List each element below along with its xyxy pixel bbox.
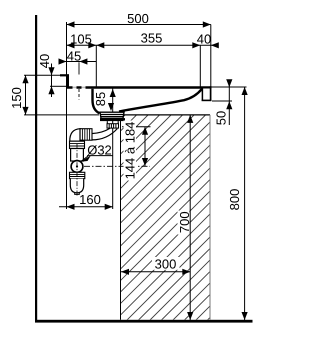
svg-text:40: 40 <box>37 54 52 68</box>
hatch left edge <box>120 115 122 320</box>
hatch top edge <box>121 114 211 116</box>
extension line y75 (tap ledge level, to 150 dim) <box>24 74 62 76</box>
extension line y87 right <box>212 86 247 88</box>
svg-text:144 à 184: 144 à 184 <box>123 122 138 180</box>
dim 105 / 355 / 40 line <box>67 31 219 49</box>
svg-text:40: 40 <box>197 32 211 47</box>
drain flange stripes <box>100 112 124 118</box>
trap inlet nut <box>70 141 85 148</box>
basin inner-left wall + bottom to drain <box>93 89 100 114</box>
dim 150 (vertical) <box>9 75 29 115</box>
dim 300 <box>121 257 190 275</box>
ground line <box>35 320 253 323</box>
svg-text:355: 355 <box>141 31 163 46</box>
pipe to elbow <box>92 128 118 140</box>
hatch wall section <box>100 20 220 339</box>
label O32 underline <box>87 155 113 157</box>
label O32 leader arrow <box>81 155 92 162</box>
extension line y86 left of basin (40 dim) <box>50 85 66 87</box>
svg-text:85: 85 <box>93 92 108 106</box>
basin left corner <box>67 74 69 88</box>
svg-text:150: 150 <box>9 87 24 109</box>
basin ledge top line <box>60 74 69 76</box>
trap body tube <box>71 149 84 162</box>
trap vertical centerline <box>76 144 78 197</box>
dim 50 <box>214 79 233 125</box>
dim 700 <box>177 115 193 320</box>
dim 160 <box>59 192 113 210</box>
dim 800 <box>227 87 248 320</box>
dim 45 <box>59 49 97 65</box>
extension line x210.8 (basin right) <box>210 25 212 87</box>
extension line y101 right <box>212 100 232 102</box>
wall left <box>35 15 37 321</box>
elbow body <box>70 129 85 142</box>
svg-text:45: 45 <box>67 49 81 64</box>
svg-text:300: 300 <box>155 257 177 272</box>
svg-text:105: 105 <box>70 32 92 47</box>
basin right edge block <box>203 89 210 100</box>
extension line y114.7 (150 dim bottom) <box>24 114 99 116</box>
svg-text:500: 500 <box>127 11 149 26</box>
basin bottom right sweep <box>119 89 202 112</box>
dim 500 <box>67 11 211 28</box>
drain tailpiece (ribbed) <box>107 121 119 128</box>
dim 85 (vertical) + drain centerline + 160 extension <box>93 88 116 210</box>
extension line x200.3 <box>199 45 201 86</box>
cup nub <box>75 193 80 195</box>
trap outlet centerline <box>84 165 150 167</box>
svg-text:50: 50 <box>214 111 229 125</box>
svg-text:Ø32: Ø32 <box>87 143 112 158</box>
dim 40 left (vertical) <box>37 54 55 97</box>
tap hole centerline <box>78 62 80 74</box>
extension line x66.5 (basin left) <box>66 22 68 209</box>
trap union circle <box>71 161 83 173</box>
hatch right edge <box>209 115 211 320</box>
elbow nut (vertical ribs) <box>80 129 92 141</box>
svg-text:800: 800 <box>227 189 242 211</box>
svg-text:160: 160 <box>79 192 101 207</box>
trap cup <box>70 179 83 193</box>
svg-text:700: 700 <box>177 211 192 233</box>
trap lower nut <box>70 172 85 178</box>
drain locknut (solid) <box>100 118 125 121</box>
dim 144 a 184 <box>122 121 151 181</box>
tap hole gaps <box>73 86 77 89</box>
extension line x96.3 <box>95 45 97 87</box>
basin rim/deck line <box>67 86 212 88</box>
